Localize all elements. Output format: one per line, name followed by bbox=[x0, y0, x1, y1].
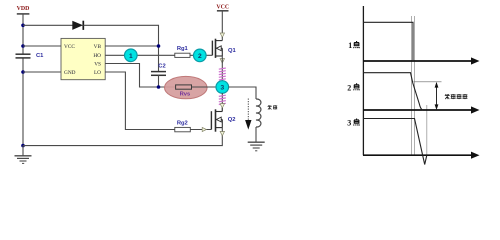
capacitor C2 bbox=[151, 63, 166, 75]
label load bbox=[268, 105, 278, 109]
wire VS pin routing bbox=[105, 64, 175, 88]
wire Rg2 to Q2 gate bbox=[190, 129, 211, 131]
transistor Q1 bbox=[212, 37, 236, 58]
svg-text:VB: VB bbox=[94, 44, 102, 50]
pin marker Q2 gate bbox=[202, 127, 206, 131]
svg-text:1: 1 bbox=[348, 41, 352, 50]
svg-text:LO: LO bbox=[94, 70, 101, 76]
label point 3 bbox=[347, 118, 359, 127]
node GND branch bbox=[21, 70, 25, 74]
wire VDD to diode anode bbox=[23, 24, 73, 26]
wire C2 bottom to VS row bbox=[158, 75, 160, 87]
pin marker Q1 source bbox=[220, 59, 224, 63]
pin marker Q2 source bbox=[220, 131, 224, 135]
svg-text:VCC: VCC bbox=[216, 5, 229, 11]
ground right bbox=[248, 142, 265, 151]
wire LO pin routing bbox=[105, 72, 175, 130]
inductor load bbox=[256, 99, 261, 127]
resistor Rg2 bbox=[175, 120, 191, 131]
transistor Q2 bbox=[211, 108, 235, 132]
node 1 marker bbox=[125, 49, 138, 62]
label point 1 bbox=[348, 41, 359, 50]
capacitor C1 bbox=[16, 53, 45, 59]
svg-text:Rg1: Rg1 bbox=[177, 46, 189, 52]
reference line t2 bbox=[414, 16, 416, 155]
wire to VCC pin bbox=[23, 45, 61, 47]
svg-text:3: 3 bbox=[347, 119, 351, 128]
node VDD-diode junction bbox=[21, 24, 25, 28]
miller plateau level line bbox=[414, 81, 442, 83]
wire diode cathode to VB column bbox=[83, 25, 158, 71]
node C2-VS junction bbox=[157, 85, 161, 89]
axis 3 with arrow bbox=[363, 152, 480, 159]
highlight ellipse around Rvs bbox=[165, 76, 208, 98]
svg-text:Rvs: Rvs bbox=[180, 92, 191, 98]
svg-text:VCC: VCC bbox=[64, 44, 75, 50]
miller plateau arrow bbox=[435, 82, 439, 110]
current arrow dashed bbox=[245, 99, 251, 130]
ground left bbox=[15, 146, 32, 164]
op-amp U1 driver IC bbox=[61, 38, 105, 79]
svg-text:GND: GND bbox=[64, 70, 76, 76]
VDD power symbol bbox=[17, 6, 30, 14]
resistor Rvs bbox=[176, 85, 192, 98]
wire ground rail bottom bbox=[23, 135, 222, 146]
wire Rvs to node 3 bbox=[192, 86, 218, 88]
svg-text:C1: C1 bbox=[36, 53, 44, 59]
svg-text:1: 1 bbox=[129, 53, 133, 60]
wire to GND pin bbox=[23, 71, 61, 73]
wire node 3 to Q2 drain bbox=[221, 93, 223, 112]
node 2 marker bbox=[194, 49, 207, 62]
parasitic highlight ticks lower bbox=[219, 95, 226, 104]
parasitic highlight ticks upper bbox=[219, 68, 226, 80]
node VCC branch bbox=[21, 44, 25, 48]
svg-text:Rg2: Rg2 bbox=[177, 120, 188, 126]
node 3 marker bbox=[216, 81, 229, 94]
wire VDD rail vertical bbox=[22, 14, 24, 146]
axis 1 with arrow bbox=[363, 57, 480, 64]
svg-text:2: 2 bbox=[198, 53, 202, 60]
label miller plateau bbox=[445, 94, 468, 99]
wire HO pin to Q1 gate bbox=[105, 54, 212, 56]
node bottom-left rail junction bbox=[21, 144, 25, 148]
diode D1 bootstrap bbox=[72, 21, 83, 30]
axis 2 with arrow bbox=[363, 106, 480, 113]
wire load to ground bbox=[255, 127, 257, 142]
trace waveform 1 bbox=[363, 22, 413, 61]
svg-text:VDD: VDD bbox=[17, 6, 30, 12]
reference line t1 bbox=[411, 16, 413, 155]
waveform vertical axis bbox=[362, 6, 364, 155]
svg-text:Q1: Q1 bbox=[228, 48, 237, 54]
svg-text:Q2: Q2 bbox=[228, 117, 236, 123]
VCC power symbol top bbox=[216, 5, 229, 11]
wire node 3 to load bbox=[228, 87, 256, 99]
svg-text:3: 3 bbox=[220, 85, 224, 92]
label point 2 bbox=[347, 83, 359, 92]
wire VB pin bbox=[105, 45, 158, 47]
resistor Rg1 bbox=[175, 46, 190, 57]
svg-text:VS: VS bbox=[94, 62, 101, 68]
trace waveform 3 bbox=[363, 119, 427, 165]
reference line t3 bbox=[426, 105, 428, 156]
svg-text:HO: HO bbox=[93, 53, 101, 59]
pin marker Q2 drain bbox=[220, 104, 224, 108]
pin marker Q1 drain bbox=[220, 33, 224, 37]
wire Q2 source down bbox=[221, 128, 223, 132]
wire VCC to Q1 drain bbox=[221, 11, 223, 37]
node VB-bootstrap junction bbox=[157, 44, 161, 48]
trace waveform 2 bbox=[363, 73, 423, 110]
wire Q1 source to node 3 bbox=[221, 56, 223, 81]
svg-text:2: 2 bbox=[347, 83, 351, 92]
svg-text:C2: C2 bbox=[158, 63, 165, 69]
